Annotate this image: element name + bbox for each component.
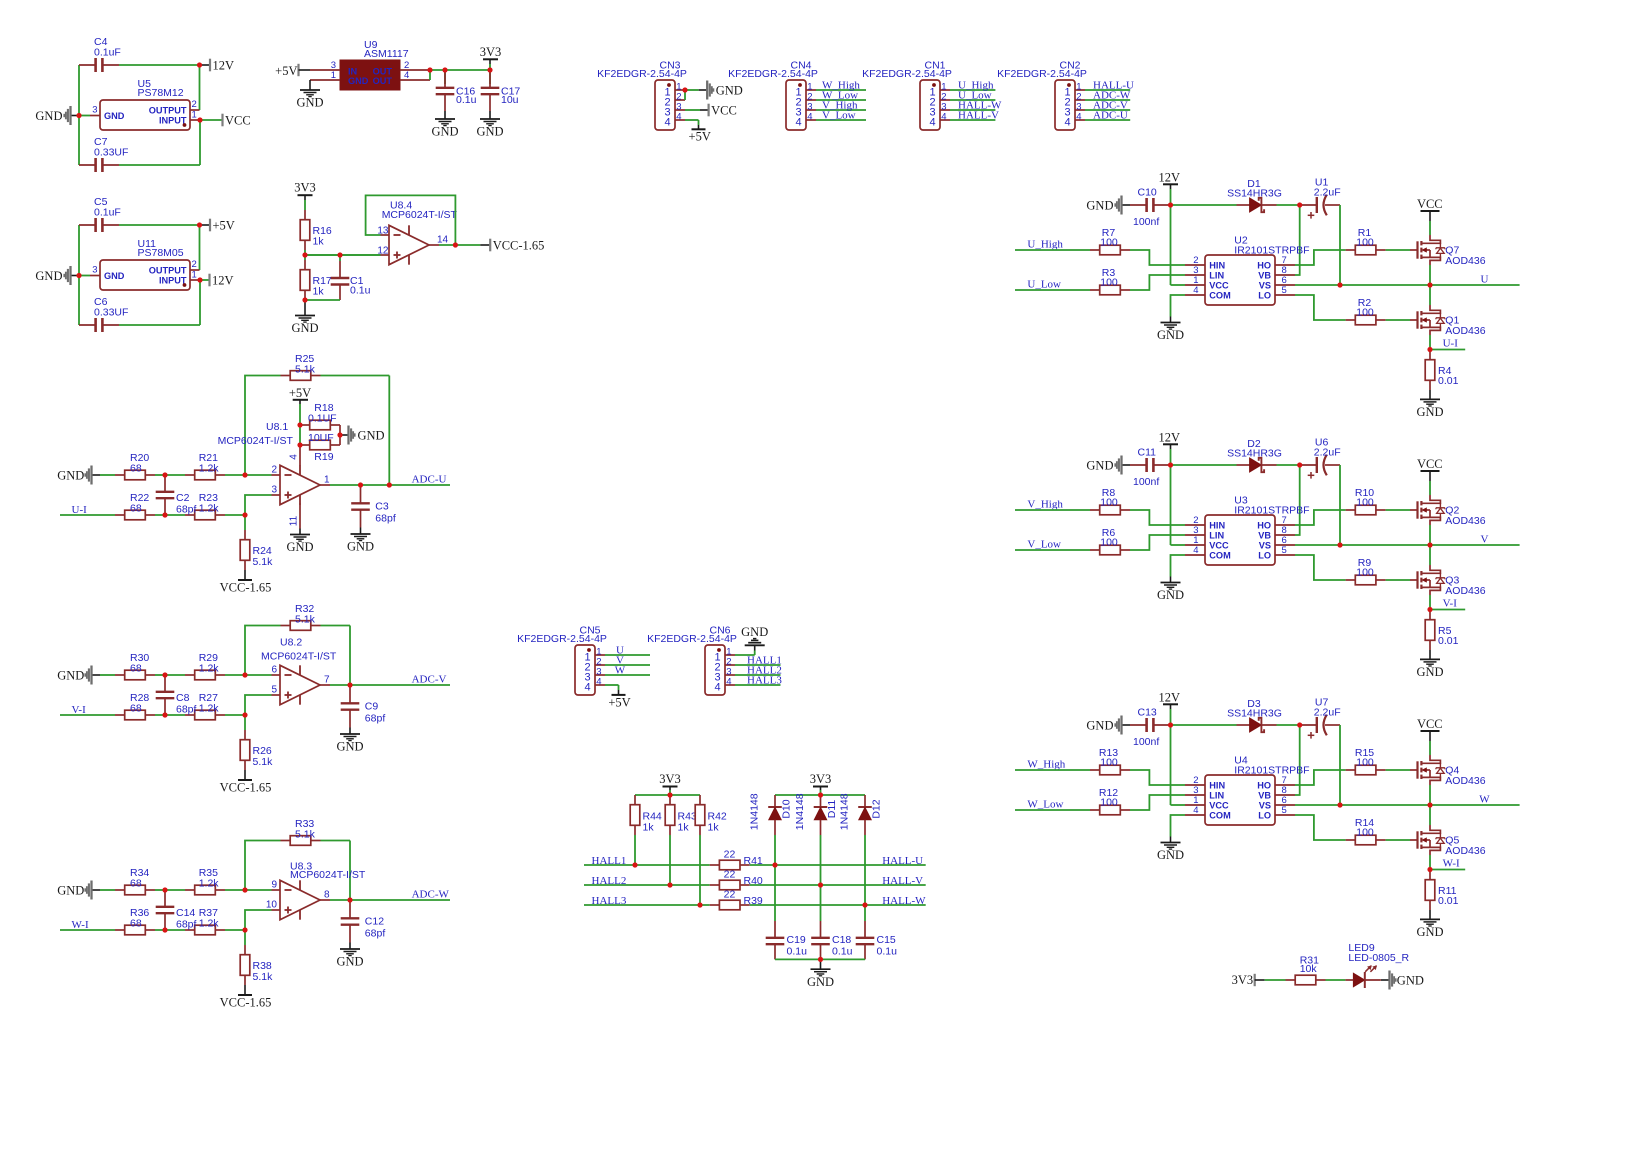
connector CN5 bbox=[517, 625, 607, 695]
svg-text:100: 100 bbox=[1356, 827, 1374, 839]
power flag +5V bbox=[289, 386, 311, 425]
power flag VCC bbox=[1417, 717, 1443, 755]
power flag 12V bbox=[1159, 431, 1181, 466]
svg-text:1.2k: 1.2k bbox=[199, 702, 220, 714]
capacitor C4 bbox=[79, 36, 121, 72]
wire HO to gate resistor bbox=[1295, 510, 1346, 525]
svg-text:VCC-1.65: VCC-1.65 bbox=[220, 781, 272, 795]
svg-text:HIN: HIN bbox=[1209, 260, 1225, 270]
svg-text:C10: C10 bbox=[1138, 187, 1157, 199]
net label U_High bbox=[1027, 239, 1063, 251]
svg-text:+5V: +5V bbox=[289, 386, 311, 400]
wire input row bbox=[60, 714, 115, 716]
resistor R14 bbox=[1346, 817, 1386, 845]
net label V_High bbox=[1027, 499, 1063, 511]
junction bbox=[1297, 722, 1302, 727]
resistor R40 bbox=[710, 869, 763, 890]
svg-text:GND: GND bbox=[296, 96, 323, 110]
junction bbox=[1337, 542, 1342, 547]
svg-text:100: 100 bbox=[1356, 497, 1374, 509]
svg-text:GND: GND bbox=[286, 540, 313, 554]
svg-text:COM: COM bbox=[1209, 290, 1231, 300]
wire to HIN bbox=[1130, 510, 1185, 525]
junction bbox=[0, 0, 1, 1]
power flag +5V CN5 bbox=[608, 690, 630, 710]
net label ADC-U bbox=[1093, 109, 1128, 121]
svg-text:U_Low: U_Low bbox=[1027, 279, 1061, 291]
svg-text:2: 2 bbox=[271, 465, 277, 476]
wire right vertical top bbox=[199, 65, 201, 110]
wire diode to cap bbox=[1277, 204, 1301, 206]
svg-text:COM: COM bbox=[1209, 810, 1231, 820]
resistor R15 bbox=[1346, 747, 1386, 775]
svg-text:4: 4 bbox=[596, 676, 601, 687]
resistor R39 bbox=[710, 889, 763, 910]
connector CN6 bbox=[647, 625, 737, 695]
junction bbox=[0, 0, 1, 1]
svg-text:11: 11 bbox=[289, 515, 300, 526]
wire to non-inverting input bbox=[225, 695, 272, 715]
svg-text:V: V bbox=[1481, 534, 1489, 546]
junction bbox=[0, 0, 1, 1]
svg-text:VCC-1.65: VCC-1.65 bbox=[220, 996, 272, 1010]
wire right vertical top bbox=[199, 225, 201, 270]
wire diode to cap bbox=[1277, 724, 1301, 726]
svg-text:0.1uF: 0.1uF bbox=[94, 47, 121, 59]
junction bbox=[0, 0, 1, 1]
junction bbox=[0, 0, 1, 1]
junction bbox=[242, 672, 247, 677]
svg-text:4: 4 bbox=[1193, 545, 1198, 556]
wire LO to gate resistor bbox=[1295, 555, 1346, 580]
svg-text:ADC-V: ADC-V bbox=[412, 674, 447, 686]
svg-text:100: 100 bbox=[1356, 757, 1374, 769]
svg-text:OUTPUT: OUTPUT bbox=[149, 265, 187, 275]
svg-text:C8: C8 bbox=[176, 692, 190, 704]
net label U bbox=[1481, 274, 1489, 286]
net label W-I bbox=[1443, 858, 1460, 870]
svg-text:1.2k: 1.2k bbox=[199, 917, 220, 929]
resistor R24 bbox=[240, 515, 273, 570]
junction bbox=[337, 252, 342, 257]
ground GND signal C11 bbox=[1086, 456, 1130, 475]
wire 12V vertical to VCC pin bbox=[1171, 205, 1186, 285]
resistor R31 bbox=[1286, 955, 1326, 985]
junction bbox=[0, 0, 1, 1]
svg-text:LO: LO bbox=[1258, 550, 1271, 560]
gate driver U2 IR2101STRPBF bbox=[1185, 235, 1310, 306]
svg-text:4: 4 bbox=[714, 682, 720, 694]
resistor R2 bbox=[1346, 297, 1386, 325]
junction bbox=[76, 113, 81, 118]
svg-text:VCC: VCC bbox=[1209, 540, 1229, 550]
svg-text:68: 68 bbox=[130, 917, 142, 929]
junction bbox=[0, 0, 1, 1]
resistor R33 feedback bbox=[281, 818, 321, 845]
svg-text:C13: C13 bbox=[1138, 707, 1157, 719]
wire bbox=[155, 674, 185, 676]
op-amp U8.2 bbox=[261, 637, 337, 705]
net label V bbox=[616, 654, 624, 666]
diode D11 1N4148 bbox=[794, 793, 838, 835]
svg-text:GND: GND bbox=[1157, 328, 1184, 342]
svg-text:5.1k: 5.1k bbox=[253, 756, 274, 768]
resistor R27 bbox=[185, 692, 225, 720]
junction bbox=[0, 0, 1, 1]
junction bbox=[487, 67, 492, 72]
svg-text:1N4148: 1N4148 bbox=[749, 793, 761, 830]
capacitor C13 100nf bbox=[1130, 707, 1170, 749]
junction bbox=[0, 0, 1, 1]
opamp power pin 11 wire bbox=[289, 504, 301, 529]
wire HALL3 row bbox=[584, 904, 710, 906]
wire R43 down bbox=[669, 835, 671, 885]
svg-text:100: 100 bbox=[1100, 757, 1118, 769]
wire 3V3 bus left bbox=[635, 794, 700, 796]
wire bbox=[155, 474, 185, 476]
wire pin12 bbox=[305, 254, 381, 256]
svg-text:KF2EDGR-2.54-4P: KF2EDGR-2.54-4P bbox=[517, 633, 607, 645]
svg-text:C2: C2 bbox=[176, 492, 190, 504]
junction bbox=[1337, 802, 1342, 807]
regulator U5 bbox=[90, 78, 200, 130]
svg-text:PS78M05: PS78M05 bbox=[138, 247, 184, 259]
wire V-I bbox=[1430, 609, 1465, 611]
junction bbox=[297, 442, 302, 447]
svg-text:W_Low: W_Low bbox=[1027, 799, 1063, 811]
resistor R26 bbox=[240, 715, 273, 770]
svg-text:SS14HR3G: SS14HR3G bbox=[1227, 448, 1282, 460]
resistor R30 bbox=[115, 652, 155, 680]
transistor Q2 AOD436 bbox=[1410, 495, 1486, 527]
ground GND under output cap bbox=[336, 728, 363, 754]
svg-text:5.1k: 5.1k bbox=[295, 364, 316, 376]
svg-text:IN: IN bbox=[348, 66, 358, 76]
svg-text:VCC: VCC bbox=[1417, 717, 1443, 731]
svg-text:1: 1 bbox=[192, 269, 197, 280]
wire bottom bus bbox=[775, 958, 865, 960]
transistor Q7 AOD436 bbox=[1410, 235, 1486, 267]
junction bbox=[1297, 462, 1302, 467]
wire to inverting input bbox=[225, 674, 272, 676]
ground GND under driver bbox=[1157, 317, 1184, 343]
svg-text:HALL-V: HALL-V bbox=[958, 109, 999, 121]
wire output bbox=[330, 484, 450, 486]
svg-text:1k: 1k bbox=[708, 822, 720, 834]
svg-text:1k: 1k bbox=[313, 236, 325, 248]
svg-text:IR2101STRPBF: IR2101STRPBF bbox=[1234, 765, 1309, 777]
svg-text:VCC: VCC bbox=[225, 113, 251, 127]
resistor R10 bbox=[1346, 487, 1386, 515]
net label W bbox=[1479, 794, 1490, 806]
wire CN2 pin1 net HALL-U bbox=[1085, 89, 1130, 91]
svg-text:V-I: V-I bbox=[1443, 598, 1458, 610]
net label HALL-W bbox=[882, 895, 926, 907]
capacitor C2 bbox=[156, 475, 197, 516]
svg-text:AOD436: AOD436 bbox=[1445, 255, 1485, 267]
svg-text:GND: GND bbox=[1416, 405, 1443, 419]
svg-text:W: W bbox=[1479, 794, 1490, 806]
wire LO to gate resistor bbox=[1295, 815, 1346, 840]
wire left vertical U11 bbox=[78, 225, 80, 325]
opamp power pin 4 wire bbox=[289, 425, 301, 466]
svg-text:68: 68 bbox=[130, 702, 142, 714]
regulator U11 bbox=[90, 238, 200, 290]
ground GND signal C13 bbox=[1086, 716, 1130, 735]
svg-text:VCC: VCC bbox=[711, 103, 737, 117]
junction bbox=[0, 0, 1, 1]
svg-text:U-I: U-I bbox=[1443, 338, 1459, 350]
junction bbox=[1168, 722, 1173, 727]
svg-text:U: U bbox=[1481, 274, 1489, 286]
wire 12V to diode bbox=[1170, 204, 1237, 206]
junction bbox=[0, 0, 1, 1]
svg-text:0.1u: 0.1u bbox=[350, 285, 371, 297]
svg-text:0.1UF: 0.1UF bbox=[308, 413, 337, 425]
power flag 3V3 right bbox=[810, 772, 832, 795]
net label U_Low bbox=[1027, 279, 1061, 291]
junction bbox=[427, 67, 432, 72]
capacitor C9 bbox=[341, 685, 386, 728]
wire to high gate bbox=[1386, 509, 1410, 511]
capacitor U7 2.2uF bbox=[1300, 697, 1341, 739]
junction bbox=[0, 0, 1, 1]
resistor R44 bbox=[630, 795, 662, 835]
junction bbox=[818, 957, 823, 962]
svg-text:HALL3: HALL3 bbox=[747, 675, 782, 687]
wire C7 to right bbox=[119, 164, 200, 166]
net label HALL1 bbox=[747, 655, 782, 667]
svg-text:100: 100 bbox=[1356, 307, 1374, 319]
wire output to flag bbox=[439, 244, 480, 246]
junction bbox=[442, 67, 447, 72]
wire HALL2 row right bbox=[750, 884, 926, 886]
net label HALL-W bbox=[958, 99, 1002, 111]
wire D10 column bbox=[774, 835, 776, 921]
wire C5 to flag bbox=[119, 224, 200, 226]
wire low drain bbox=[1429, 545, 1431, 565]
junction bbox=[242, 472, 247, 477]
net label V_Low bbox=[1027, 539, 1061, 551]
resistor R17 bbox=[300, 255, 332, 300]
wire CN5 pin2 net V bbox=[605, 664, 650, 666]
svg-text:KF2EDGR-2.54-4P: KF2EDGR-2.54-4P bbox=[647, 633, 737, 645]
wire to high gate bbox=[1386, 769, 1410, 771]
junction bbox=[162, 887, 167, 892]
wire left vertical U5 bbox=[78, 65, 80, 165]
svg-text:22: 22 bbox=[724, 869, 736, 881]
regulator U9 bbox=[310, 39, 430, 90]
transistor Q3 AOD436 bbox=[1410, 565, 1486, 597]
junction bbox=[0, 0, 1, 1]
ground GND signal input bbox=[57, 466, 100, 485]
svg-text:KF2EDGR-2.54-4P: KF2EDGR-2.54-4P bbox=[728, 68, 818, 80]
LED LED9 LED-0805_R bbox=[1345, 942, 1409, 988]
resistor R22 bbox=[115, 492, 155, 520]
capacitor C19 bbox=[766, 921, 807, 959]
junction bbox=[242, 712, 247, 717]
capacitor C14 bbox=[156, 890, 197, 931]
ground GND under driver bbox=[1157, 837, 1184, 863]
transistor Q1 AOD436 bbox=[1410, 305, 1486, 337]
svg-text:PS78M12: PS78M12 bbox=[138, 87, 184, 99]
junction bbox=[0, 0, 1, 1]
junction bbox=[0, 0, 1, 1]
wire D12 column bbox=[864, 835, 866, 921]
resistor R3 bbox=[1090, 267, 1130, 295]
junction bbox=[0, 0, 1, 1]
junction bbox=[0, 0, 1, 1]
ground GND signal input bbox=[57, 666, 100, 685]
svg-text:GND: GND bbox=[741, 625, 768, 639]
net label ADC-V bbox=[1093, 99, 1128, 111]
ground GND hall caps bbox=[807, 959, 834, 988]
net label W-I bbox=[72, 919, 89, 931]
svg-text:0.33UF: 0.33UF bbox=[94, 147, 128, 159]
junction bbox=[302, 252, 307, 257]
junction bbox=[1168, 462, 1173, 467]
svg-text:3V3: 3V3 bbox=[659, 772, 681, 786]
junction bbox=[0, 0, 1, 1]
svg-text:0.1uF: 0.1uF bbox=[94, 207, 121, 219]
svg-text:VCC: VCC bbox=[1209, 280, 1229, 290]
wire gnd row bbox=[100, 474, 115, 476]
power flag VCC bbox=[1417, 457, 1443, 495]
net label W_Low bbox=[1027, 799, 1063, 811]
capacitor C11 100nf bbox=[1130, 447, 1170, 489]
ground GND signal bbox=[35, 266, 79, 285]
svg-text:GND: GND bbox=[1157, 588, 1184, 602]
svg-text:W_High: W_High bbox=[1027, 759, 1065, 771]
junction bbox=[347, 897, 352, 902]
junction bbox=[632, 862, 637, 867]
wire VB vertical bbox=[1295, 725, 1300, 795]
svg-text:KF2EDGR-2.54-4P: KF2EDGR-2.54-4P bbox=[997, 68, 1087, 80]
net label HALL2 bbox=[747, 665, 782, 677]
svg-text:GND: GND bbox=[336, 740, 363, 754]
svg-text:3V3: 3V3 bbox=[810, 772, 832, 786]
svg-text:4: 4 bbox=[1193, 805, 1198, 816]
junction bbox=[197, 222, 202, 227]
wire CN6 pin3 net HALL2 bbox=[735, 674, 781, 676]
wire to LIN bbox=[1130, 275, 1185, 290]
wire output bbox=[330, 684, 450, 686]
junction bbox=[862, 902, 867, 907]
junction bbox=[197, 62, 202, 67]
junction bbox=[0, 0, 1, 1]
svg-text:68: 68 bbox=[130, 877, 142, 889]
diode D2 SS14HR3G bbox=[1227, 438, 1282, 472]
junction bbox=[0, 0, 1, 1]
wire C4 to flag bbox=[119, 64, 200, 66]
resistor R20 bbox=[115, 452, 155, 480]
wire CN4 pin3 net V_High bbox=[816, 109, 866, 111]
wire CN1 pin2 net U_Low bbox=[950, 99, 995, 101]
wire HALL1 row right bbox=[750, 864, 926, 866]
junction bbox=[0, 0, 1, 1]
resistor R35 bbox=[185, 867, 225, 895]
wire output bbox=[330, 899, 450, 901]
wire COM to GND bbox=[1171, 295, 1186, 317]
resistor R41 bbox=[710, 849, 763, 870]
svg-text:V_Low: V_Low bbox=[1027, 539, 1061, 551]
wire to HIN bbox=[1130, 250, 1185, 265]
junction bbox=[0, 0, 1, 1]
svg-text:0.01: 0.01 bbox=[1438, 895, 1459, 907]
svg-text:68pf: 68pf bbox=[176, 704, 197, 716]
wire to low gate bbox=[1386, 839, 1410, 841]
wire CN1 pin1 net U_High bbox=[950, 89, 995, 91]
svg-text:GND: GND bbox=[1416, 665, 1443, 679]
junction bbox=[0, 0, 1, 1]
junction bbox=[0, 0, 1, 1]
junction bbox=[1427, 867, 1432, 872]
wire R44 down bbox=[634, 835, 636, 865]
power flag VCC-1.65 bbox=[480, 238, 544, 252]
svg-text:IR2101STRPBF: IR2101STRPBF bbox=[1234, 245, 1309, 257]
svg-text:3: 3 bbox=[271, 485, 277, 496]
svg-text:10UF: 10UF bbox=[308, 432, 334, 444]
svg-text:U_High: U_High bbox=[1027, 239, 1063, 251]
wire OUT elbow bbox=[429, 70, 431, 80]
svg-text:ADC-U: ADC-U bbox=[1093, 109, 1128, 121]
svg-text:12V: 12V bbox=[1159, 171, 1181, 185]
svg-text:68pf: 68pf bbox=[176, 919, 197, 931]
svg-text:1k: 1k bbox=[643, 822, 655, 834]
net label HALL2 bbox=[592, 875, 627, 887]
svg-text:HIN: HIN bbox=[1209, 520, 1225, 530]
svg-text:100: 100 bbox=[1100, 237, 1118, 249]
svg-text:100nf: 100nf bbox=[1133, 476, 1159, 488]
resistor R23 bbox=[185, 492, 225, 520]
svg-text:5.1k: 5.1k bbox=[295, 614, 316, 626]
resistor R42 bbox=[695, 795, 727, 835]
svg-text:1k: 1k bbox=[678, 822, 690, 834]
junction bbox=[0, 0, 1, 1]
wire VS phase row bbox=[1295, 804, 1520, 806]
power flag 3V3 bbox=[480, 45, 502, 70]
wire CN1 pin3 net HALL-W bbox=[950, 109, 995, 111]
net label ADC-W bbox=[412, 889, 450, 901]
junction bbox=[387, 482, 392, 487]
wire low drain bbox=[1429, 805, 1431, 825]
wire gnd to pin3 bbox=[79, 275, 90, 277]
resistor R38 bbox=[240, 930, 273, 985]
net label HALL-V bbox=[882, 875, 923, 887]
junction bbox=[162, 672, 167, 677]
ground GND under output cap bbox=[347, 528, 374, 554]
junction bbox=[0, 0, 1, 1]
svg-text:AOD436: AOD436 bbox=[1445, 775, 1485, 787]
power flag +5V CN3 bbox=[689, 125, 711, 143]
junction bbox=[0, 0, 1, 1]
svg-text:8: 8 bbox=[324, 890, 330, 901]
power flag 3V3 bbox=[294, 181, 316, 210]
junction bbox=[453, 242, 458, 247]
power flag VCC-1.65 bbox=[220, 570, 272, 595]
resistor R21 bbox=[185, 452, 225, 480]
junction bbox=[1337, 282, 1342, 287]
junction bbox=[0, 0, 1, 1]
resistor R28 bbox=[115, 692, 155, 720]
junction bbox=[818, 792, 823, 797]
svg-text:HALL3: HALL3 bbox=[592, 895, 627, 907]
svg-text:100: 100 bbox=[1100, 497, 1118, 509]
net label V-I bbox=[1443, 598, 1458, 610]
ground GND under shunt bbox=[1416, 910, 1443, 939]
resistor R8 bbox=[1090, 487, 1130, 515]
wire high source to phase bbox=[1429, 525, 1431, 545]
